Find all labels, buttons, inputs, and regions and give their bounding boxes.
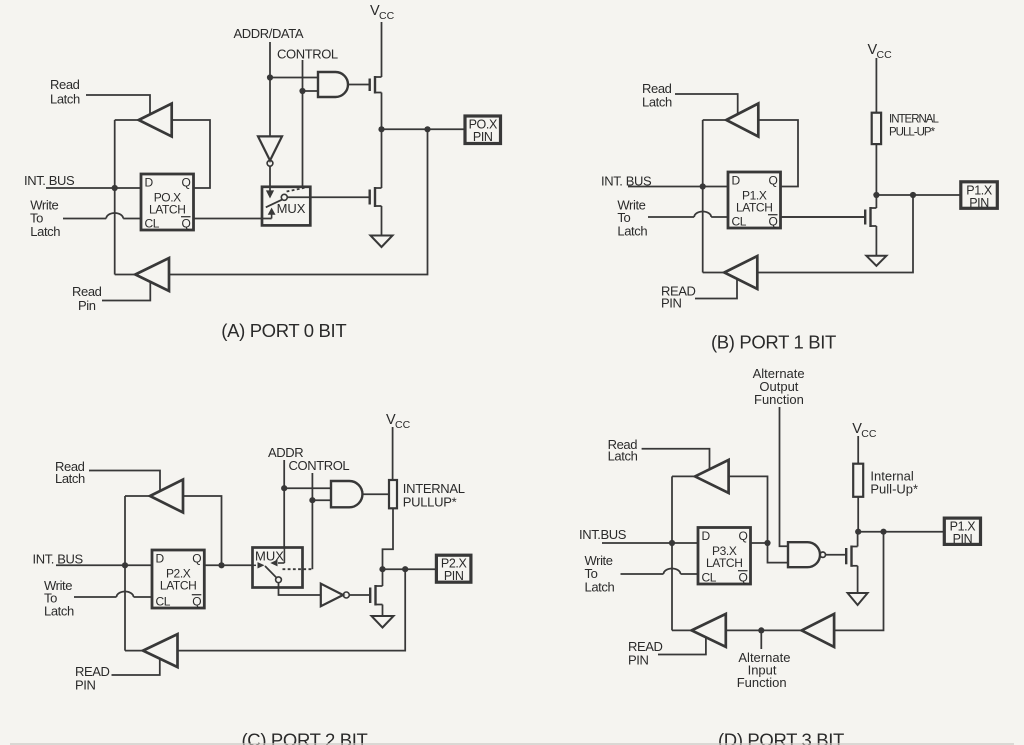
MUX control dashed link (A) [287,188,305,192]
wire read-pin output to bus (B) [703,272,725,274]
svg-text:CC: CC [395,419,411,431]
wire MUX output to inverter (C) [279,583,321,595]
resistor internal pullup (C) [389,480,397,508]
MUX switch pivot (C) [276,577,282,583]
wire read-latch output to bus (B) [703,119,727,121]
junction pin feedback node (B) [910,192,916,198]
buffer read-latch (B) [726,104,758,137]
wire pin row (D) [858,531,944,533]
wire read-latch input from Q (A) [172,120,210,188]
caption (B) PORT 1 BIT [711,331,836,352]
wire INT.BUS to latch D (A) [46,187,141,189]
wire read-latch input to Q node (D) [729,476,768,543]
node Write To Latch (D) [585,553,615,594]
buffer read-latch (A) [139,104,172,137]
wire read-latch output to bus (C) [125,495,150,497]
svg-text:MUX: MUX [255,549,284,564]
port pin box P2.X (C) [436,555,471,583]
wire FET source to ground (B) [875,226,877,256]
junction pullup-drain node (B) [873,192,879,198]
wire write-to-latch with hop (A) [63,213,141,219]
svg-text:LATCH: LATCH [736,201,772,215]
wire pin to alt-input buffer (D) [834,532,883,631]
svg-text:Q: Q [769,174,778,188]
wire resistor to pin node (D) [857,497,859,532]
svg-text:CONTROL: CONTROL [277,47,338,62]
transistor FET (C) [370,585,382,606]
node ADDR (C) [268,445,303,460]
ground (D) [848,593,868,605]
svg-text:CL: CL [702,571,717,585]
transistor lower FET (A) [370,187,382,207]
svg-text:Q: Q [739,571,748,585]
caption (D) PORT 3 BIT [718,730,844,745]
node INT.BUS (D) [579,527,627,542]
junction ADDR to AND (C) [281,485,287,491]
node Read Latch label (C) [55,459,85,486]
svg-text:INT. BUS: INT. BUS [33,551,84,566]
junction FET drain node (A) [378,126,384,132]
MUX switch lever (A) [266,200,282,208]
wire READ PIN label link (D) [658,637,706,654]
wire Read Latch label link (C) [89,471,160,492]
junction pin feedback node (C) [402,566,408,572]
resistor internal pull-up (D) [853,464,863,497]
MUX input arrow (A) [268,208,276,219]
latch P0.X (A) [141,174,194,231]
svg-text:Q: Q [182,217,191,231]
node Write To Latch (C) [44,578,74,618]
wire upper FET source to pin node [381,93,383,130]
buffer read-pin (C) [143,634,178,667]
wire resistor to pin node (B) [875,144,877,195]
latch P3.X (D) [698,528,751,585]
wire to AND top input (C) [284,487,331,489]
svg-text:PULLUP*: PULLUP* [403,495,457,510]
wire READ PIN label link (C) [112,659,160,675]
wire internal bus vertical (B) [702,120,704,273]
node Alternate Input Function (D) [737,650,791,690]
MUX switch lever (C) [265,566,276,578]
wire inverter to FET gate (C) [349,594,370,596]
svg-text:PIN: PIN [444,569,464,583]
svg-text:PIN: PIN [75,678,95,693]
svg-text:Function: Function [754,392,804,407]
wire pullup to pin node (C) [383,508,394,569]
wire write-to-latch with hop (B) [648,212,728,217]
node ADDR/DATA [234,26,304,41]
transistor upper FET (A) [370,76,382,94]
node INT. BUS (A) [24,173,75,188]
svg-text:CC: CC [877,49,893,61]
AND gate U1 (A) [318,72,348,97]
svg-text:Q: Q [192,595,201,609]
node Read Pin label (A) [72,284,102,313]
svg-text:CL: CL [732,215,747,229]
ground (C) [372,616,394,628]
svg-text:INTERNAL: INTERNAL [889,114,939,126]
wire AND output to upper FET gate [348,84,370,86]
wire pin row (C) [383,568,437,570]
svg-text:D: D [732,174,741,188]
power VCC (C) [386,412,411,480]
svg-text:Latch: Latch [55,471,85,486]
svg-text:(C) PORT 2 BIT: (C) PORT 2 BIT [242,730,368,745]
svg-text:Latch: Latch [608,449,638,464]
svg-text:Latch: Latch [617,223,647,238]
svg-text:MUX: MUX [277,201,306,216]
wire read-latch output to bus (A) [115,119,139,121]
wire lower FET drain to pin node [381,129,383,188]
wire Read Latch label link (B) [675,94,738,114]
node INT. BUS (B) [601,174,652,189]
svg-text:Read: Read [50,77,80,92]
svg-text:D: D [156,552,165,566]
wire AND output to pullup (C) [363,493,389,495]
wire to AND bottom input (C) [312,499,331,501]
svg-text:Latch: Latch [30,224,60,239]
junction ADDR/DATA to AND [267,74,273,80]
MUX control dashed link (C) [283,568,313,570]
junction FET drain node (C) [379,566,385,572]
svg-text:Read: Read [72,284,102,299]
port pin box P1.X (B) [961,182,998,210]
port pin box P1.X (D) [944,518,980,546]
svg-text:PIN: PIN [969,196,989,210]
junction CONTROL to AND (C) [309,497,315,503]
svg-text:INT. BUS: INT. BUS [24,173,75,188]
wire read-latch input from Q (B) [758,120,798,187]
buffer read-latch (D) [695,460,729,493]
wire INT.BUS to latch D (B) [628,186,728,188]
svg-text:CC: CC [861,428,877,440]
wire read-pin output to bus (D) [672,629,692,631]
svg-text:D: D [702,529,711,543]
wire Q node to NAND bottom input (D) [768,543,789,563]
MUX label (C) [255,549,284,564]
svg-text:D: D [145,176,154,190]
MUX addr input arrow (C) [270,547,284,567]
svg-text:LATCH: LATCH [160,579,196,593]
buffer read-latch (C) [150,480,183,513]
caption (C) PORT 2 BIT [242,730,368,745]
junction INT.BUS node (D) [669,540,675,546]
wire latch Q to MUX (C) [205,564,252,566]
svg-text:Pull-Up*: Pull-Up* [870,482,918,497]
node CONTROL (C) [289,458,350,473]
junction latch Q node (C) [218,562,224,568]
wire pin row (B) [876,194,960,196]
wire INT.BUS to latch D (D) [602,542,698,544]
wire alt input drop (D) [760,630,762,649]
wire to AND bottom input [303,90,319,92]
node Write To Latch (A) [30,198,60,240]
svg-text:ADDR/DATA: ADDR/DATA [234,26,304,41]
transistor FET (B) [781,207,876,227]
wire INT.BUS to latch D (C) [56,564,152,566]
node CONTROL (A) [277,47,338,62]
wire FET source to ground (D) [857,566,859,593]
wire ADDR/DATA drop [269,42,271,136]
wire write-to-latch with hop (C) [74,592,152,598]
NAND gate (D) [788,542,826,567]
wire Read Latch label link (D) [642,449,710,470]
MUX box (A) [262,187,310,226]
wire Read Latch label link (A) [86,95,150,114]
svg-text:Pin: Pin [78,298,96,313]
junction INT.BUS node (B) [700,183,706,189]
junction pullup-drain node (D) [855,529,861,535]
port pin box PO.X (A) [465,116,501,144]
wire internal bus vertical (D) [671,476,673,630]
wire FET drain up (C) [382,569,384,586]
node INTERNAL PULLUP* label (C) [403,481,465,510]
buffer read-pin (A) [135,258,169,291]
junction latch Q node (D) [764,540,770,546]
resistor internal pull-up (B) [872,113,881,144]
wire pin feedback down-left (B) [757,195,913,273]
junction INT.BUS node (A) [112,185,118,191]
svg-text:CL: CL [145,217,160,231]
wire CONTROL drop [302,60,304,187]
wire latch Q to MUX with arrow (C) [252,562,265,568]
power VCC (D) [852,421,877,464]
svg-text:PIN: PIN [661,295,681,310]
node Read Latch label (A) [50,77,80,107]
node READ PIN label (B) [661,283,696,310]
node Internal Pull-Up* label (D) [870,469,918,497]
wire latch Qbar to FET gate (B) [781,216,866,218]
node READ PIN label (D) [628,639,663,668]
svg-text:Q: Q [192,552,201,566]
wire Read Pin label link (A) [102,282,150,301]
wire latch Q out (D) [751,542,768,544]
node READ PIN label (C) [75,664,110,693]
svg-text:PIN: PIN [628,653,648,668]
wire lower FET source to ground [381,206,383,236]
svg-text:LATCH: LATCH [706,556,742,570]
svg-text:CONTROL: CONTROL [289,458,350,473]
node INTERNAL PULL-UP* label (B) [889,114,939,139]
wire FET drain up (B) [875,195,877,208]
wire latch Qbar to MUX (A) [194,218,272,220]
junction alternate input node (D) [758,627,764,633]
junction CONTROL to AND [299,88,305,94]
wire read-latch input to Q node (C) [183,496,222,565]
svg-text:Latch: Latch [642,95,672,110]
svg-text:PIN: PIN [473,130,493,144]
wire NAND output to FET gate (D) [826,554,847,556]
MUX box (C) [253,548,303,588]
wire read-pin output to bus (C) [125,650,143,652]
latch P1.X (B) [728,172,781,229]
node INT. BUS (C) [33,551,84,566]
junction pin feedback node (A) [424,126,430,132]
wire to AND top input [270,77,318,79]
svg-text:PULL-UP*: PULL-UP* [889,127,936,139]
svg-text:Function: Function [737,675,787,690]
latch P2.X (C) [152,550,204,609]
MUX switch pivot (A) [281,194,287,200]
wire pin feedback down-left (C) [178,569,406,650]
svg-text:CL: CL [156,595,171,609]
wire MUX output to lower FET gate [287,196,369,198]
svg-text:Latch: Latch [585,579,615,594]
wire alt-output drop to NAND (D) [780,407,789,546]
junction pin alt-input node (D) [880,529,886,535]
junction INT.BUS node (C) [122,562,128,568]
wire internal bus vertical (A) [114,120,116,275]
AND gate (C) [331,481,362,507]
wire internal bus vertical (C) [124,496,126,651]
svg-text:Q: Q [182,176,191,190]
svg-text:(B) PORT 1 BIT: (B) PORT 1 BIT [711,331,836,352]
wire READ PIN label link (B) [695,279,737,299]
MUX label (A) [277,201,306,216]
ground (B) [866,256,886,266]
wire inverter to MUX with arrow [266,166,274,198]
caption (A) PORT 0 BIT [221,320,346,341]
scan artifact bottom line [10,743,1014,745]
power VCC (A) [370,3,395,77]
node Alternate Output Function (D) [753,366,805,407]
inverter (A) [258,136,282,166]
svg-text:(A) PORT 0 BIT: (A) PORT 0 BIT [221,320,346,341]
node Write To Latch (B) [617,198,647,239]
buffer alternate input (D) [802,614,835,647]
wire read-latch output to bus (D) [672,475,695,477]
svg-text:CC: CC [379,10,395,22]
wire CONTROL drop (C) [311,473,313,569]
transistor FET (D) [846,546,857,567]
buffer read-pin (D) [692,614,726,647]
wire alt buffer to read-pin buffer (D) [726,629,802,631]
svg-text:Q: Q [739,529,748,543]
svg-text:INT.BUS: INT.BUS [579,527,627,542]
svg-text:LATCH: LATCH [149,203,185,217]
inverter with bubble (C) [321,584,350,607]
svg-text:Q: Q [769,215,778,229]
svg-text:Latch: Latch [44,603,74,618]
wire FET drain up (D) [857,532,859,547]
node Read Latch label (D) [608,437,638,464]
svg-text:Latch: Latch [50,92,80,107]
buffer read-pin (B) [724,256,757,289]
power VCC (B) [868,42,893,113]
svg-text:PIN: PIN [953,532,973,546]
node Read Latch label (B) [642,81,672,110]
wire pin row (A) [382,128,466,130]
wire ADDR drop (C) [283,460,285,547]
wire write-to-latch with hop (D) [621,569,699,575]
wire read-pin output to bus (A) [115,274,136,276]
wire FET source to ground (C) [382,605,384,617]
wire pin feedback down-left (A) [169,129,428,274]
svg-text:(D) PORT 3 BIT: (D) PORT 3 BIT [718,730,844,745]
ground (A) [371,236,393,248]
